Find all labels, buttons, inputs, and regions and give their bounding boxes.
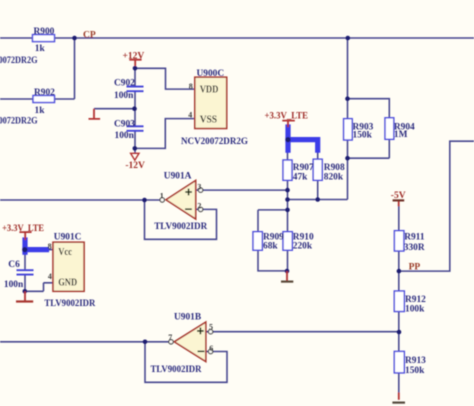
svg-text:R912: R912 — [405, 295, 426, 305]
svg-text:100n: 100n — [114, 91, 134, 101]
svg-text:CP: CP — [83, 30, 96, 40]
svg-text:C902: C902 — [114, 78, 135, 88]
svg-text:C903: C903 — [114, 119, 135, 129]
svg-text:0072DR2G: 0072DR2G — [0, 56, 38, 66]
svg-text:0072DR2G: 0072DR2G — [0, 116, 38, 126]
svg-text:Vcc: Vcc — [58, 247, 72, 258]
svg-text:1: 1 — [160, 191, 164, 200]
svg-text:GND: GND — [58, 278, 77, 289]
svg-text:3: 3 — [197, 182, 201, 191]
svg-text:R902: R902 — [34, 88, 55, 98]
svg-text:+3.3V_LTE: +3.3V_LTE — [2, 224, 44, 234]
svg-text:150k: 150k — [353, 131, 373, 141]
svg-text:U900C: U900C — [197, 69, 225, 79]
svg-text:47k: 47k — [293, 172, 308, 182]
svg-text:1k: 1k — [35, 44, 46, 54]
svg-text:NCV20072DR2G: NCV20072DR2G — [181, 137, 249, 147]
svg-text:4: 4 — [48, 272, 52, 281]
svg-text:1M: 1M — [394, 130, 408, 140]
svg-text:8: 8 — [48, 242, 52, 251]
svg-text:4: 4 — [188, 110, 192, 119]
svg-text:C6: C6 — [8, 260, 20, 270]
svg-text:8: 8 — [189, 82, 193, 91]
svg-text:5: 5 — [209, 323, 213, 332]
svg-text:TLV9002IDR: TLV9002IDR — [44, 299, 95, 309]
svg-text:820k: 820k — [324, 172, 344, 182]
svg-text:TLV9002IDR: TLV9002IDR — [151, 365, 202, 375]
svg-text:VSS: VSS — [200, 114, 218, 125]
svg-text:7: 7 — [168, 333, 172, 342]
svg-text:1k: 1k — [35, 106, 46, 116]
svg-text:+3.3V_LTE: +3.3V_LTE — [265, 112, 309, 122]
svg-text:100k: 100k — [405, 305, 425, 315]
svg-text:2: 2 — [197, 202, 201, 211]
svg-text:U901A: U901A — [164, 171, 192, 181]
svg-text:TLV9002IDR: TLV9002IDR — [154, 222, 207, 232]
svg-text:330R: 330R — [404, 243, 425, 253]
svg-text:100n: 100n — [4, 280, 24, 290]
svg-text:6: 6 — [209, 344, 213, 353]
svg-text:U901C: U901C — [54, 233, 82, 243]
svg-text:150k: 150k — [405, 366, 425, 376]
svg-text:68k: 68k — [263, 242, 278, 252]
svg-text:-5V: -5V — [391, 191, 406, 201]
svg-text:+12V: +12V — [123, 52, 145, 62]
svg-text:100n: 100n — [115, 131, 135, 141]
svg-text:R913: R913 — [405, 356, 426, 366]
svg-text:-12V: -12V — [125, 161, 145, 171]
svg-text:R900: R900 — [34, 27, 55, 37]
svg-text:VDD: VDD — [200, 84, 219, 95]
svg-text:U901B: U901B — [174, 312, 201, 322]
svg-text:PP: PP — [409, 263, 421, 273]
svg-text:220k: 220k — [293, 242, 313, 252]
svg-text:R911: R911 — [404, 232, 425, 242]
